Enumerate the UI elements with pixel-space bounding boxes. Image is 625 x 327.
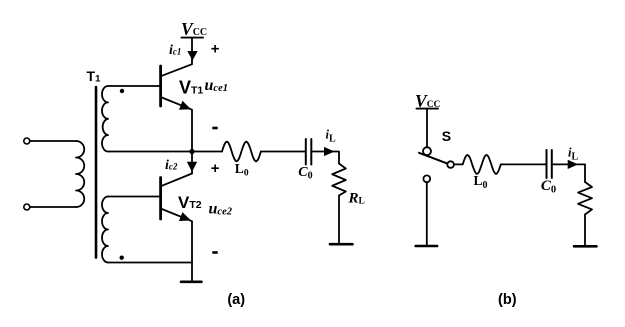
svg-text:L0: L0	[235, 161, 249, 179]
transformer T1 primary winding	[76, 141, 84, 207]
wire secondary bottom top-end to VT2 base	[108, 196, 159, 198]
wire switch to L0 (b)	[454, 163, 463, 165]
svg-text:uce1: uce1	[205, 77, 228, 94]
capacitor C0 (a) left plate	[305, 139, 307, 165]
resistor RL zigzag	[332, 164, 346, 196]
capacitor C0 (b) right plate	[551, 150, 553, 178]
node junction dot output	[189, 149, 194, 154]
wire lower contact to ground (b)	[426, 182, 428, 244]
wire L0 to C0 (b)	[501, 163, 546, 165]
wire RL to ground	[338, 196, 340, 243]
svg-text:VCC: VCC	[415, 91, 441, 111]
transistor VT2 emitter line	[162, 209, 192, 281]
capacitor C0 (a) right plate	[310, 139, 312, 165]
switch S arm	[419, 153, 447, 164]
wire secondary top to VT1 base	[108, 85, 159, 87]
transistor VT1 collector line	[162, 39, 192, 76]
ground load (b)	[574, 245, 597, 248]
inductor L0 (a)	[222, 142, 261, 162]
svg-text:+: +	[211, 41, 220, 58]
wire load resistor to ground (b)	[584, 215, 586, 245]
transformer T1 core	[95, 87, 98, 258]
transistor VT1 emitter line	[162, 98, 192, 152]
switch S fixed contact top (circle)	[423, 147, 431, 155]
wire output line left segment	[108, 151, 222, 153]
svg-text:L0: L0	[474, 173, 488, 191]
svg-text:+: +	[211, 160, 220, 177]
ground VT2 emitter	[181, 280, 202, 283]
svg-text:ic2: ic2	[165, 158, 178, 173]
svg-text:VT1: VT1	[179, 78, 203, 98]
current arrow iL (b)	[568, 160, 579, 169]
svg-text:VT2: VT2	[178, 193, 202, 212]
svg-text:ic1: ic1	[169, 43, 181, 58]
switch S lower contact (circle)	[423, 175, 430, 182]
transformer T1 secondary bottom winding	[102, 197, 108, 263]
wire output node to VT2 collector with ic2	[191, 152, 193, 174]
svg-text:C0: C0	[298, 165, 312, 182]
wire secondary bottom bottom-end to VT2 emitter line	[108, 262, 192, 264]
transistor VT2 base bar	[159, 178, 162, 220]
load resistor zigzag (b)	[578, 182, 592, 215]
svg-text:T1: T1	[87, 68, 102, 85]
svg-text:C0: C0	[541, 178, 556, 196]
label - uce1	[212, 127, 217, 130]
wire Vcc (b) down to switch	[426, 109, 428, 147]
wire L0 to C0 (a)	[261, 151, 305, 153]
Vcc (b) label underline	[417, 108, 439, 110]
polarity dot secondary top	[120, 89, 124, 93]
svg-text:iL: iL	[568, 146, 578, 163]
current arrow ic1	[187, 51, 197, 61]
svg-text:uce2: uce2	[209, 201, 233, 218]
svg-text:(a): (a)	[227, 292, 245, 308]
svg-text:RL: RL	[348, 191, 365, 207]
transistor VT1 emitter arrow	[179, 101, 193, 114]
label - uce2	[212, 251, 217, 254]
wire C0 to RL with iL arrow (a)	[313, 152, 340, 164]
ground switch (b)	[416, 245, 437, 248]
svg-text:(b): (b)	[498, 292, 517, 308]
svg-text:iL: iL	[326, 128, 336, 145]
transistor VT1 base bar	[159, 66, 162, 106]
input terminal bottom (circle)	[24, 204, 30, 210]
svg-text:VCC: VCC	[181, 19, 207, 39]
Vcc supply label underline	[182, 37, 204, 39]
wire C0 to load with iL arrow (b)	[553, 164, 585, 182]
ground RL (a)	[330, 243, 353, 246]
transformer T1 secondary top winding	[102, 86, 108, 152]
wire input bottom	[30, 206, 76, 208]
current arrow iL (a)	[324, 147, 335, 156]
current arrow ic2	[187, 162, 197, 172]
capacitor C0 (b) left plate	[546, 150, 548, 178]
inductor L0 (b)	[463, 155, 501, 174]
switch S pivot contact (circle)	[447, 161, 454, 168]
transistor VT2 emitter arrow	[179, 212, 193, 225]
transistor VT2 collector line	[162, 174, 192, 186]
polarity dot secondary bottom	[120, 256, 124, 260]
input terminal top (circle)	[24, 138, 30, 144]
wire input top	[30, 140, 76, 142]
svg-text:S: S	[442, 128, 451, 144]
